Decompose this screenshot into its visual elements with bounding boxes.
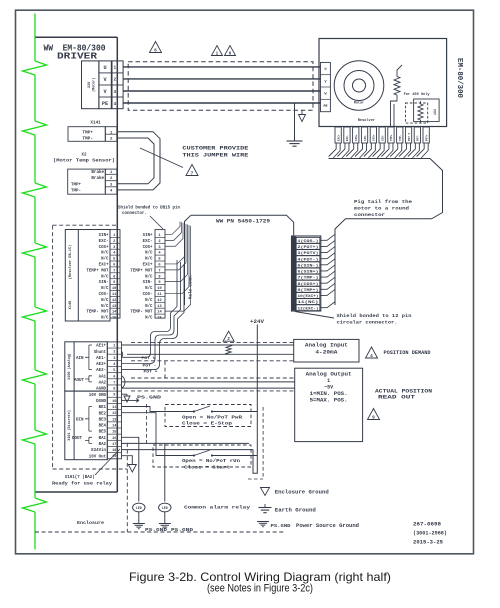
svg-text:AA1: AA1 bbox=[99, 375, 107, 379]
svg-text:Earth Ground: Earth Ground bbox=[275, 508, 316, 514]
svg-text:N/C: N/C bbox=[145, 304, 153, 309]
svg-text:PS.GND: PS.GND bbox=[145, 529, 168, 533]
svg-text:DGND: DGND bbox=[96, 400, 106, 404]
svg-text:Analog Output: Analog Output bbox=[306, 372, 352, 378]
svg-text:12(EXC-): 12(EXC-) bbox=[298, 306, 319, 311]
svg-text:DOUT: DOUT bbox=[72, 437, 83, 441]
svg-text:19: 19 bbox=[112, 455, 116, 459]
svg-text:Enclosure: Enclosure bbox=[77, 521, 104, 526]
svg-text:U: U bbox=[103, 65, 106, 71]
svg-text:4: 4 bbox=[370, 354, 373, 359]
svg-text:POSITION DEMAND: POSITION DEMAND bbox=[384, 350, 431, 356]
svg-text:N/C: N/C bbox=[101, 257, 109, 262]
svg-text:EXC-: EXC- bbox=[143, 240, 153, 244]
svg-text:TMP-: TMP- bbox=[399, 134, 402, 141]
svg-text:PS.GND: PS.GND bbox=[137, 396, 162, 401]
svg-text:AIN: AIN bbox=[76, 357, 84, 361]
svg-text:N/C: N/C bbox=[145, 274, 153, 279]
svg-text:LED: LED bbox=[136, 506, 142, 510]
svg-text:(Motor Temp Sensor): (Motor Temp Sensor) bbox=[53, 158, 115, 164]
svg-text:LED: LED bbox=[162, 506, 168, 510]
svg-text:15: 15 bbox=[157, 317, 162, 321]
svg-text:Common alarm relay: Common alarm relay bbox=[184, 506, 250, 511]
svg-text:PE: PE bbox=[102, 101, 108, 107]
svg-text:1: 1 bbox=[113, 66, 116, 71]
svg-text:BA2: BA2 bbox=[99, 443, 107, 447]
svg-text:(see Notes in Figure 3-2c): (see Notes in Figure 3-2c) bbox=[207, 583, 313, 595]
svg-text:EXC-: EXC- bbox=[346, 134, 349, 141]
svg-text:THIS JUMPER WIRE: THIS JUMPER WIRE bbox=[182, 152, 249, 159]
svg-text:X141: X141 bbox=[90, 120, 101, 125]
svg-text:N/C: N/C bbox=[145, 316, 153, 321]
svg-text:motor to a round: motor to a round bbox=[354, 206, 409, 212]
svg-text:X20: X20 bbox=[88, 82, 92, 88]
svg-text:~5V: ~5V bbox=[324, 385, 333, 391]
svg-text:X2: X2 bbox=[81, 152, 87, 157]
svg-text:N/C: N/C bbox=[101, 316, 109, 321]
svg-text:BA1: BA1 bbox=[99, 437, 107, 441]
svg-text:10V Out: 10V Out bbox=[89, 455, 107, 459]
svg-text:circular connector.: circular connector. bbox=[337, 320, 398, 326]
svg-text:BE2: BE2 bbox=[99, 412, 107, 416]
svg-text:For 300 Only: For 300 Only bbox=[404, 92, 430, 96]
svg-text:EXC-: EXC- bbox=[99, 240, 109, 244]
svg-text:WW PN 5450-1729: WW PN 5450-1729 bbox=[216, 219, 270, 225]
svg-text:DIN: DIN bbox=[76, 419, 84, 423]
svg-text:PS.GND: PS.GND bbox=[171, 529, 194, 533]
svg-text:Shield bonded to 12 pin: Shield bonded to 12 pin bbox=[337, 313, 412, 319]
svg-text:Power Source Ground: Power Source Ground bbox=[296, 523, 359, 529]
svg-text:Open = No/PoT rUn: Open = No/PoT rUn bbox=[182, 459, 241, 464]
svg-text:COS-: COS- bbox=[99, 293, 109, 297]
svg-text:COS-: COS- bbox=[381, 134, 384, 141]
svg-text:N/C: N/C bbox=[145, 286, 153, 291]
svg-text:AE1+: AE1+ bbox=[96, 345, 106, 349]
svg-text:Brake: Brake bbox=[91, 170, 104, 175]
svg-text:POT: POT bbox=[433, 109, 437, 115]
svg-text:SIN-: SIN- bbox=[99, 281, 109, 285]
svg-text:POT+: POT+ bbox=[425, 134, 428, 141]
svg-text:2015-3-25: 2015-3-25 bbox=[413, 540, 443, 546]
svg-text:EM-80/300: EM-80/300 bbox=[455, 58, 463, 98]
svg-text:Enclosure Ground: Enclosure Ground bbox=[275, 490, 329, 496]
svg-text:N/C: N/C bbox=[145, 298, 153, 303]
svg-text:X100 (Analog): X100 (Analog) bbox=[67, 353, 72, 379]
svg-text:N/C: N/C bbox=[101, 251, 109, 256]
svg-text:(Motor): (Motor) bbox=[92, 78, 97, 92]
svg-text:COS+: COS+ bbox=[143, 246, 153, 250]
svg-text:2: 2 bbox=[113, 78, 116, 83]
svg-text:SIN-: SIN- bbox=[364, 134, 367, 141]
svg-text:9: 9 bbox=[372, 416, 375, 421]
svg-text:+24V: +24V bbox=[250, 319, 264, 325]
svg-text:POT-: POT- bbox=[417, 134, 420, 141]
svg-text:SIN+: SIN+ bbox=[143, 234, 153, 238]
svg-text:4-20mA: 4-20mA bbox=[315, 350, 337, 356]
svg-text:TMP-: TMP- bbox=[82, 137, 93, 142]
svg-text:AE2-: AE2- bbox=[96, 369, 106, 373]
svg-text:Resolver: Resolver bbox=[358, 118, 375, 123]
svg-text:N/C: N/C bbox=[101, 304, 109, 309]
svg-text:connector.: connector. bbox=[122, 212, 147, 216]
svg-text:N/C: N/C bbox=[101, 286, 109, 291]
svg-text:N/C: N/C bbox=[101, 298, 109, 303]
svg-text:PE: PE bbox=[323, 105, 327, 109]
svg-text:1: 1 bbox=[216, 52, 219, 57]
svg-text:X140: X140 bbox=[69, 301, 73, 310]
svg-text:AA2: AA2 bbox=[99, 382, 107, 386]
svg-text:AE2+: AE2+ bbox=[96, 363, 106, 367]
svg-text:BE5: BE5 bbox=[99, 431, 107, 435]
svg-text:AE1-: AE1- bbox=[96, 357, 106, 361]
svg-text:SIN-: SIN- bbox=[143, 281, 153, 285]
svg-text:TEMP- MOT: TEMP- MOT bbox=[130, 311, 153, 315]
svg-text:1: 1 bbox=[327, 378, 330, 384]
svg-text:TEMP- MOT: TEMP- MOT bbox=[86, 311, 109, 315]
svg-text:POT V: POT V bbox=[408, 133, 411, 141]
svg-text:BE1: BE1 bbox=[99, 406, 107, 410]
svg-text:3: 3 bbox=[113, 90, 116, 95]
svg-text:Pig tail from the: Pig tail from the bbox=[354, 199, 412, 205]
svg-text:U: U bbox=[324, 68, 326, 72]
svg-text:2: 2 bbox=[227, 337, 230, 342]
svg-text:TEMP+ MOT: TEMP+ MOT bbox=[86, 269, 109, 273]
svg-text:Shield bonded to DB15 pin: Shield bonded to DB15 pin bbox=[118, 206, 180, 211]
svg-text:Close = Start: Close = Start bbox=[184, 466, 231, 471]
svg-text:TMP+: TMP+ bbox=[390, 134, 393, 141]
svg-text:POT -: POT - bbox=[143, 364, 157, 368]
svg-text:Motor: Motor bbox=[354, 101, 364, 106]
svg-text:AGND: AGND bbox=[96, 388, 106, 392]
svg-text:COS-: COS- bbox=[143, 293, 153, 297]
svg-text:TMP+: TMP+ bbox=[71, 183, 82, 187]
svg-text:EXC+: EXC+ bbox=[143, 263, 153, 267]
svg-text:Close = E-Stop: Close = E-Stop bbox=[182, 422, 233, 427]
svg-text:EXC+: EXC+ bbox=[337, 134, 340, 141]
svg-text:SIN+: SIN+ bbox=[99, 234, 109, 238]
svg-text:Analog Input: Analog Input bbox=[305, 343, 348, 349]
svg-text:N/C: N/C bbox=[101, 274, 109, 279]
svg-text:EXC+: EXC+ bbox=[99, 263, 109, 267]
svg-text:10V GRD: 10V GRD bbox=[89, 394, 107, 398]
svg-text:Open = No/PoT PwR: Open = No/PoT PwR bbox=[182, 416, 243, 421]
svg-text:COS+: COS+ bbox=[99, 246, 109, 250]
svg-text:6: 6 bbox=[229, 52, 232, 57]
svg-text:PS.GND: PS.GND bbox=[271, 525, 292, 529]
svg-text:N/C: N/C bbox=[145, 257, 153, 262]
svg-text:BE3: BE3 bbox=[99, 418, 107, 422]
svg-text:POT +: POT + bbox=[144, 370, 159, 374]
svg-text:TEMP+ MOT: TEMP+ MOT bbox=[130, 269, 153, 273]
svg-text:connector: connector bbox=[354, 212, 385, 218]
svg-text:TMP-: TMP- bbox=[71, 190, 81, 194]
svg-text:4: 4 bbox=[113, 102, 116, 107]
svg-text:TMP+: TMP+ bbox=[82, 130, 93, 135]
svg-text:SIN+: SIN+ bbox=[355, 134, 358, 141]
svg-text:267-0698: 267-0698 bbox=[413, 522, 441, 528]
svg-text:(Resolver DB-15): (Resolver DB-15) bbox=[68, 245, 73, 280]
svg-text:Shunt: Shunt bbox=[94, 350, 107, 355]
svg-text:15: 15 bbox=[112, 317, 117, 321]
svg-text:CUSTOMER PROVIDE: CUSTOMER PROVIDE bbox=[182, 145, 249, 152]
svg-text:7: 7 bbox=[191, 172, 194, 177]
svg-text:BE4: BE4 bbox=[99, 425, 107, 429]
svg-text:Brake: Brake bbox=[91, 176, 104, 181]
svg-text:X101(7 (BA2): X101(7 (BA2) bbox=[65, 475, 95, 480]
svg-text:READ OUT: READ OUT bbox=[378, 395, 415, 401]
svg-text:N/C: N/C bbox=[145, 251, 153, 256]
svg-text:5=MAX. POS.: 5=MAX. POS. bbox=[310, 398, 348, 404]
svg-text:1=MIN. POS.: 1=MIN. POS. bbox=[310, 391, 348, 397]
svg-text:Ready for use relay: Ready for use relay bbox=[52, 482, 112, 487]
svg-text:COS+: COS+ bbox=[373, 134, 376, 141]
svg-text:DRIVER: DRIVER bbox=[57, 52, 98, 62]
svg-text:(3001-2968): (3001-2968) bbox=[413, 531, 447, 537]
svg-text:E24Vin: E24Vin bbox=[91, 448, 106, 453]
svg-text:6: 6 bbox=[154, 49, 157, 54]
svg-text:AOUT: AOUT bbox=[74, 379, 85, 383]
